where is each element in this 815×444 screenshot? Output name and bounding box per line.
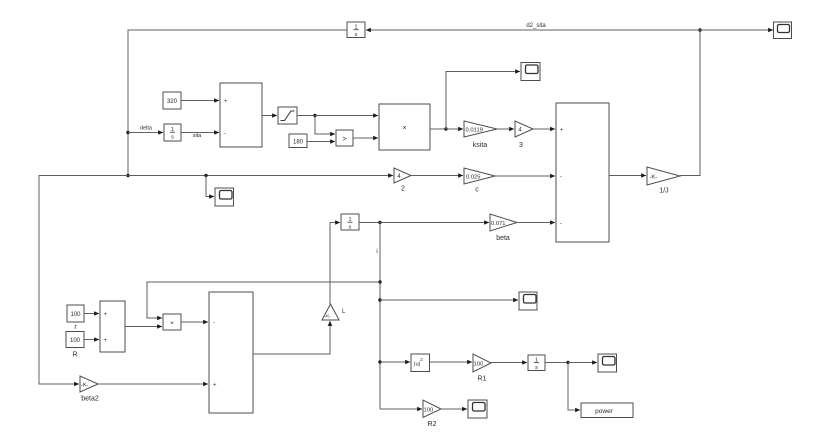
wire integrator i output to junction [359,222,380,224]
product multiply (left) [163,314,181,330]
svg-text:-: - [224,131,226,137]
svg-text:-: - [560,175,562,181]
wire top line left into integrator 1/s (top) [366,29,700,31]
node junction i to current loop [378,280,381,283]
mux block [100,301,125,352]
wire junction into gain ksita [446,128,463,130]
wire junction up into Scope (mid top) [446,72,520,130]
constant 100 r [67,305,84,331]
svg-text:100: 100 [70,338,81,344]
svg-text:+: + [224,99,228,105]
gain R1 100 [473,354,491,383]
wire i trunk into gain R2 [380,408,422,410]
wire delta into integrator 1/s (second) [128,132,163,134]
node junction i [378,221,381,224]
wire d_sita line left and down the left edge to beta2 [39,176,128,385]
wire gain beta into sum (right) input 3 [517,222,555,224]
svg-text:|u|: |u| [414,362,420,368]
wire gain R1 into integrator 1/s (power) [491,362,527,364]
svg-text:×: × [402,125,406,132]
wire relational output into product input 2 [353,137,378,139]
svg-text:-: - [560,221,562,227]
node junction scope branch [204,174,207,177]
integrator 1/s (second, delta to sita) [164,124,181,141]
gain L -K- (upward) [322,304,346,320]
svg-text:s: s [171,135,174,141]
wire ksita to gain 3 [497,128,514,130]
gain 2 (value 4) [394,168,411,193]
svg-text:s: s [535,365,538,371]
svg-text:180: 180 [293,140,304,146]
svg-text:delta: delta [140,126,153,132]
svg-text:2: 2 [401,186,405,193]
svg-text:power: power [595,408,614,415]
node junction after product [444,127,447,130]
wire r into mux input 1 [84,313,99,315]
wire gain R2 into Scope (R2) [441,408,467,410]
svg-text:r: r [74,324,77,331]
svg-text:0.025: 0.025 [466,175,481,181]
svg-text:100: 100 [474,362,484,368]
node junction d_sita on x=128 [126,174,129,177]
svg-text:+: + [104,338,108,344]
integrator 1/s (middle, i) [341,214,359,231]
svg-text:R1: R1 [478,376,487,383]
wire d2_sita from 1/J output up to top line [680,30,700,176]
node junction energy [566,361,569,364]
integrator 1/s (power) [528,355,545,371]
wire saturation output to junction [297,115,315,117]
wire mux output into multiply (left) input 2 [125,326,162,328]
wire product output to junction [430,128,446,130]
sum block (top left subsystem) [220,83,262,147]
wire integrator output to junction [545,362,568,364]
wire gain 2 into gain c [411,175,463,177]
svg-text:100: 100 [424,408,434,414]
constant 100 R [66,332,84,359]
gain ksita 0.0119 [464,121,497,149]
svg-text:320: 320 [167,99,178,105]
scope Scope (energy) [598,354,617,372]
svg-text:+: + [104,312,108,318]
wire i into |u|^2 [380,361,410,363]
svg-text:sita: sita [193,133,203,139]
svg-text:R2: R2 [428,421,437,428]
node junction delta [126,131,129,134]
wire sum output into saturation [262,115,277,117]
node junction after saturation [313,114,316,117]
wire gain L output up into integrator i [330,223,340,305]
gain 1/J -K- [647,167,680,195]
svg-text:ksita: ksita [473,142,488,149]
svg-text:s: s [355,32,358,38]
constant 180 [289,134,307,148]
relational operator > [336,130,353,146]
gain beta 0.071 [490,214,517,242]
wire i back to multiply (left) input 1 [147,282,380,318]
gain c 0.025 [464,168,495,194]
svg-text:-K-: -K- [325,314,332,320]
svg-text:c: c [475,187,479,194]
wire sita into sum block (top left) [181,132,219,134]
scope Scope (mid top) [521,63,540,81]
product block (big multiply) [379,104,430,150]
wire motor subsystem output to gain L [253,321,330,354]
wire beta2 into motor subsystem input 2 [98,383,208,385]
svg-text:-K-: -K- [81,383,89,389]
math function |u|^2 [411,354,430,372]
wire 320 into sum block [181,100,219,102]
svg-text:i: i [376,249,377,255]
sum block (motor electrical subsystem) [209,292,253,413]
svg-text:beta2: beta2 [81,396,99,403]
integrator 1/s (top) [347,22,365,38]
scope Scope (current) [519,292,537,310]
wire junction down into power display [568,363,580,411]
wire sum output into gain 1/J [609,175,646,177]
svg-text:L: L [342,309,346,315]
svg-text:beta: beta [496,235,510,242]
wire R into mux input 2 [84,339,99,341]
svg-text:0.0119: 0.0119 [466,128,483,134]
wire junction to product input 1 [315,115,378,117]
wire gain 3 into sum (right) input 1 [533,128,555,130]
wire i vertical trunk down [379,223,381,410]
wire i into Scope (current) [380,299,518,301]
wire top line right into Scope d2_sita [700,29,773,31]
display power [581,403,633,418]
wire 180 into relational operator input 2 [307,141,335,143]
node junction i to scope [378,298,381,301]
svg-text:+: + [560,128,564,134]
scope Scope (d_sita) [215,188,234,206]
saturation block [278,107,297,124]
svg-text:>: > [342,136,346,143]
wire i into gain beta [380,222,489,224]
scope Scope (top right) [774,22,792,39]
node junction top d2_sita [698,28,701,31]
svg-text:3: 3 [519,142,523,149]
wire gain c into sum (right) input 2 [495,175,555,177]
svg-text:d2_sita: d2_sita [526,23,546,29]
gain 3 (value 4) [515,121,533,149]
scope Scope (R2) [468,400,487,418]
gain R2 100 [423,400,441,428]
node junction i to |u|^2 [378,360,381,363]
svg-text:-: - [213,321,215,327]
svg-text:1/J: 1/J [659,188,668,195]
sum block (right, torque balance) [556,103,609,242]
wire multiply output into motor subsystem input 1 [181,321,208,323]
svg-text:×: × [170,320,174,327]
svg-text:s: s [349,225,352,231]
wire junction into Scope (energy) [568,362,597,364]
svg-text:0.071: 0.071 [491,221,506,227]
svg-text:-K-: -K- [650,175,658,181]
constant 320 [163,92,181,109]
gain beta2 -K- [80,376,99,403]
svg-text:+: + [213,383,217,389]
wire junction down into relational operator input 1 [315,116,335,135]
wire d_sita line right into gain 2 [128,175,393,177]
wire from top integrator output left and down to x=128 [128,30,347,176]
svg-text:R: R [72,352,77,359]
wire branch down into Scope (d_sita) [206,176,214,197]
svg-text:100: 100 [70,312,81,318]
wire |u|^2 into gain R1 [430,361,473,363]
